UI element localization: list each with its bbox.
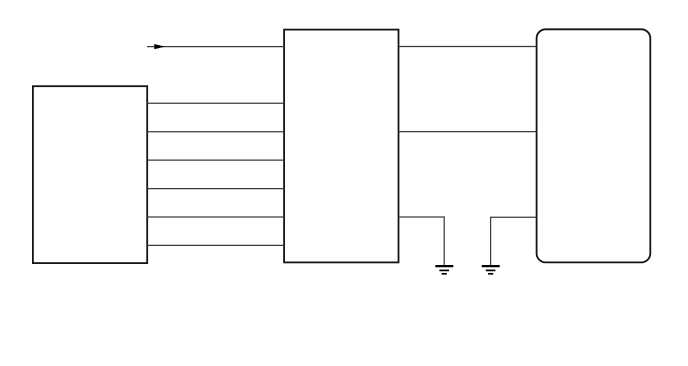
block 3 (right rounded rectangle)	[537, 29, 651, 262]
wire: block2 lower pin to ground 1 (L-shaped)	[399, 217, 445, 266]
wire: block2 to block3 (middle)	[399, 131, 537, 133]
wire: input signal line into block 2 left edge	[147, 46, 284, 48]
wire 5 (block1 to block2)	[147, 216, 284, 218]
wire 4 (block1 to block2)	[147, 188, 284, 190]
wire 6 (block1 to block2)	[147, 244, 284, 246]
arrowhead on input signal wire	[154, 44, 165, 49]
ground 1	[435, 266, 453, 274]
ground 2	[482, 266, 500, 274]
wire 2 (block1 to block2)	[147, 131, 284, 133]
wire: ground 2 to block3 left edge (L-shaped)	[491, 217, 537, 265]
block 2 (middle rectangle)	[284, 30, 398, 263]
block 1 (left rectangle)	[33, 86, 147, 263]
wire 1 (block1 to block2)	[147, 102, 284, 104]
wire: block2 to block3 (top)	[399, 46, 537, 48]
wire 3 (block1 to block2)	[147, 159, 284, 161]
